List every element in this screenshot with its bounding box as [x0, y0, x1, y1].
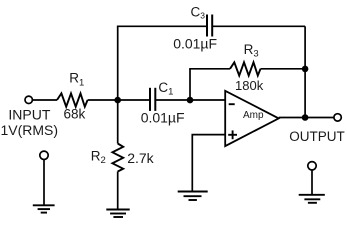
wire C1 to op-amp minus input — [155, 99, 225, 101]
node C junction dot — [302, 66, 309, 73]
op-amp U1 — [225, 91, 279, 146]
wire top left of C3 — [117, 25, 207, 27]
ground under J4 — [299, 195, 325, 203]
wire output vertical — [304, 26, 306, 117]
op-amp minus pin symbol — [229, 103, 235, 105]
output terminal J3 — [334, 114, 341, 121]
node B junction dot — [187, 97, 194, 104]
input terminal J1 — [25, 96, 32, 103]
wire R2 top lead — [117, 100, 119, 144]
svg-text:2.7k: 2.7k — [127, 150, 154, 166]
op-amp plus pin symbol — [228, 130, 237, 139]
svg-text:R1: R1 — [69, 71, 84, 89]
svg-text:0.01µF: 0.01µF — [173, 35, 217, 51]
ground under R2 — [106, 210, 129, 218]
input ground terminal J2 — [40, 151, 48, 159]
output ground terminal J4 — [308, 162, 316, 170]
wire R2 bottom lead — [117, 172, 119, 210]
svg-text:180k: 180k — [235, 78, 264, 93]
wire node B up to R3 — [189, 69, 191, 100]
wire R1 to node A — [88, 99, 150, 101]
ground under J2 — [33, 205, 55, 212]
node A junction dot — [114, 97, 121, 104]
svg-text:C3: C3 — [191, 4, 206, 20]
ground at plus input — [178, 192, 208, 201]
resistor R2 — [112, 144, 123, 172]
svg-text:INPUT: INPUT — [8, 106, 50, 122]
resistor R3 — [230, 62, 261, 75]
svg-text:68k: 68k — [64, 107, 86, 122]
resistor R1 — [57, 93, 88, 106]
wire op-amp output — [279, 117, 334, 119]
svg-text:0.01µF: 0.01µF — [141, 110, 185, 126]
wire J2 down — [43, 160, 45, 206]
svg-text:R3: R3 — [244, 42, 259, 60]
wire R3 left lead — [189, 68, 230, 70]
svg-text:OUTPUT: OUTPUT — [289, 129, 345, 144]
svg-text:Amp: Amp — [243, 110, 264, 121]
svg-text:1V(RMS): 1V(RMS) — [1, 122, 59, 138]
wire top right of C3 — [212, 25, 305, 27]
capacitor C3 — [207, 15, 212, 37]
node D junction dot — [302, 114, 309, 121]
capacitor C1 — [150, 88, 155, 111]
svg-text:C1: C1 — [158, 80, 173, 98]
wire R3 right lead — [261, 68, 306, 70]
wire J4 down — [311, 170, 313, 195]
svg-text:R2: R2 — [91, 149, 106, 167]
wire input to R1 — [33, 99, 57, 101]
wire feedback vertical left — [117, 26, 119, 100]
wire plus input — [192, 135, 225, 192]
